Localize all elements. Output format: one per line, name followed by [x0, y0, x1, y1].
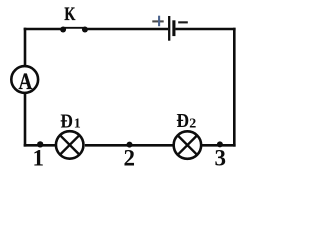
- wire battery to top-right corner: [176, 28, 236, 31]
- svg-text:A: A: [19, 69, 33, 94]
- svg-text:3: 3: [214, 146, 226, 171]
- ammeter A: [11, 66, 38, 94]
- node 1: [37, 141, 43, 147]
- battery: [169, 16, 174, 41]
- wire lamp D1 to lamp D2: [85, 144, 174, 147]
- svg-text:K: K: [64, 5, 75, 25]
- wire switch to battery: [85, 28, 168, 31]
- wire left side lower (ammeter to corner): [24, 93, 27, 147]
- battery - label: [178, 21, 188, 23]
- wire top-left segment (corner to switch): [24, 28, 63, 31]
- svg-text:Đ2: Đ2: [176, 111, 196, 132]
- lamp D2: [174, 131, 202, 159]
- wire left side upper (corner to ammeter): [24, 28, 27, 66]
- wire bottom-left (corner to lamp D1): [24, 144, 56, 147]
- wire right side: [233, 28, 236, 147]
- svg-text:1: 1: [33, 146, 45, 171]
- node 3: [217, 141, 223, 147]
- svg-text:Đ1: Đ1: [60, 111, 80, 132]
- switch K: [60, 27, 88, 33]
- lamp D1: [56, 131, 84, 159]
- node 2: [127, 142, 133, 148]
- wire lamp D2 to bottom-right corner: [201, 144, 235, 147]
- battery + label: [152, 16, 163, 27]
- svg-text:2: 2: [124, 146, 136, 171]
